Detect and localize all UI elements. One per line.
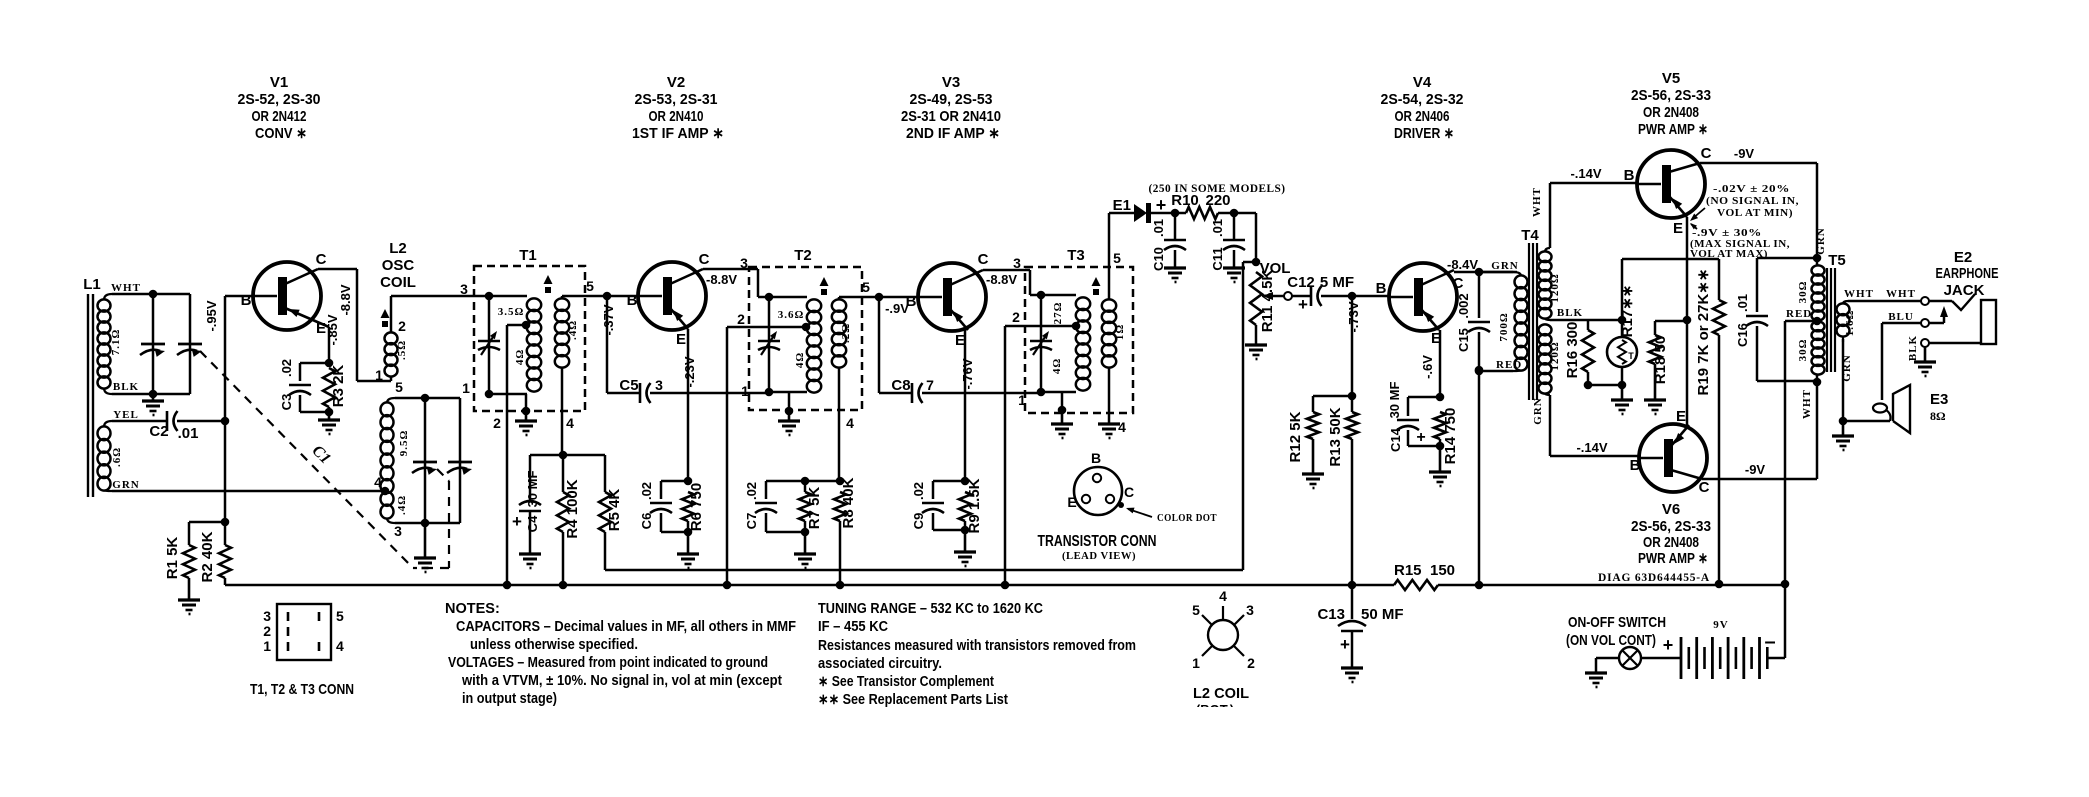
svg-text:8Ω: 8Ω [1930, 409, 1946, 423]
svg-text:C10: C10 [1151, 247, 1166, 271]
svg-text:4: 4 [846, 415, 854, 431]
ground R7 [804, 532, 807, 554]
svg-text:E: E [1067, 494, 1076, 510]
svg-text:PWR AMP ∗: PWR AMP ∗ [1638, 121, 1708, 138]
wire V1 base line [225, 295, 253, 298]
svg-text:1: 1 [375, 367, 383, 383]
node bus R4 [559, 581, 568, 590]
capacitor C14 30MF electrolytic [1408, 396, 1440, 399]
ground R11 [1245, 343, 1267, 346]
capacitor C13 50MF electrolytic [1351, 585, 1354, 619]
wire L2 pin2 to T1 [391, 295, 489, 298]
svg-text:120Ω: 120Ω [1549, 273, 1561, 302]
ground T1 pin1 stub [525, 394, 528, 411]
ground R3 [328, 412, 331, 420]
node T2 pin3 [765, 293, 774, 302]
svg-text:C7: C7 [744, 513, 759, 530]
svg-text:CAPACITORS – Decimal values in: CAPACITORS – Decimal values in MF, all o… [456, 619, 796, 635]
svg-text:associated circuitry.: associated circuitry. [818, 656, 942, 672]
svg-text:R11 4.5K: R11 4.5K [1259, 270, 1276, 333]
IF transformer T2 shield box [749, 267, 862, 410]
resistor R14 750 [1434, 412, 1446, 439]
svg-text:30Ω: 30Ω [1797, 281, 1809, 304]
svg-text:GRN: GRN [1532, 397, 1544, 424]
svg-text:3: 3 [1246, 602, 1254, 618]
svg-text:4: 4 [336, 638, 344, 654]
wire V2 collector [703, 268, 758, 271]
resistor R7 5K [804, 481, 807, 492]
svg-text:-.95V: -.95V [204, 300, 219, 331]
svg-text:5: 5 [336, 608, 344, 624]
wire V5 emitter [1686, 217, 1689, 425]
svg-text:3: 3 [263, 608, 271, 624]
svg-text:2: 2 [493, 415, 501, 431]
svg-text:-.73V: -.73V [1346, 301, 1361, 332]
wire to R12 [1313, 395, 1352, 398]
node T1 pin3 [485, 292, 494, 301]
svg-text:3: 3 [1013, 255, 1021, 271]
svg-text:C9: C9 [911, 513, 926, 530]
svg-text:unless otherwise specified.: unless otherwise specified. [470, 637, 638, 653]
ground C13 [1341, 666, 1363, 669]
speaker E3 cone [1893, 385, 1910, 433]
svg-text:RED: RED [1496, 359, 1522, 371]
svg-text:2: 2 [737, 311, 745, 327]
svg-text:.02: .02 [639, 482, 654, 500]
transistor V3 [918, 263, 986, 331]
slug arrow T1 [544, 275, 553, 284]
T3 secondary winding 1 ohm [1102, 299, 1116, 311]
svg-text:R6 750: R6 750 [688, 483, 705, 531]
svg-text:1: 1 [1192, 655, 1200, 671]
svg-text:R15: R15 [1394, 562, 1422, 579]
svg-text:L2 COIL: L2 COIL [1193, 685, 1249, 702]
svg-text:3: 3 [394, 523, 402, 539]
T4 secondary winding 120 ohm lower [1539, 324, 1552, 335]
T1 primary winding 3.5 ohm [489, 295, 527, 298]
T5 secondary winding 1.6 ohm [1837, 303, 1850, 315]
svg-text:TRANSISTOR CONN: TRANSISTOR CONN [1038, 533, 1157, 550]
svg-text:(ON VOL CONT): (ON VOL CONT) [1566, 632, 1656, 649]
trimmer capacitor T1 [488, 296, 491, 394]
svg-text:WHT: WHT [1886, 288, 1916, 300]
T4 primary winding 700 ohm [1515, 275, 1528, 288]
T4 secondary winding 120 ohm upper [1539, 251, 1552, 262]
thermistor R17 [1621, 320, 1624, 337]
svg-text:R14 750: R14 750 [1442, 408, 1459, 465]
svg-text:GRN: GRN [1491, 260, 1518, 272]
node C11 [1230, 209, 1239, 218]
resistor R8 40K [834, 492, 846, 521]
node bus R13 C13 [1348, 581, 1357, 590]
wire V3 collector [983, 269, 1030, 272]
svg-text:-.02V ± 20%: -.02V ± 20% [1713, 183, 1790, 195]
svg-text:GRN: GRN [1841, 354, 1853, 381]
node bus R19 [1715, 580, 1724, 589]
svg-text:C: C [1701, 145, 1712, 162]
svg-text:-.14V: -.14V [1570, 166, 1601, 181]
svg-text:4Ω: 4Ω [1051, 358, 1063, 374]
svg-text:150: 150 [1430, 562, 1455, 579]
trimmer capacitor T3 [1040, 295, 1043, 392]
T4 secondary tap BLK [1545, 318, 1550, 320]
capacitor C12 5MF [1291, 295, 1311, 298]
svg-text:TUNING RANGE – 532 KC to 1620: TUNING RANGE – 532 KC to 1620 KC [818, 601, 1043, 617]
oscillator coil L2 upper .5 ohm [385, 332, 398, 344]
svg-text:2: 2 [398, 318, 406, 334]
slug arrow L2 [381, 309, 390, 318]
svg-text:9V: 9V [1713, 619, 1728, 631]
svg-text:OR 2N410: OR 2N410 [649, 108, 704, 125]
svg-text:2S-56, 2S-33: 2S-56, 2S-33 [1631, 518, 1711, 535]
node bus T3 pin2 [1001, 581, 1010, 590]
svg-text:R7 5K: R7 5K [806, 487, 823, 530]
svg-text:NOTES:: NOTES: [445, 601, 500, 617]
svg-text:R10: R10 [1171, 192, 1199, 209]
svg-text:-.85V: -.85V [325, 314, 340, 345]
svg-text:V4: V4 [1413, 74, 1432, 91]
svg-text:BLU: BLU [1888, 311, 1914, 323]
oscillator coil L2 lower 9.5 ohm / .4 ohm [381, 402, 394, 416]
svg-text:2: 2 [263, 623, 271, 639]
wire T5 bottom to V6 collector [1816, 382, 1819, 479]
svg-text:-.76V: -.76V [960, 358, 975, 389]
svg-text:E: E [1676, 408, 1686, 425]
svg-text:50 MF: 50 MF [1361, 606, 1404, 623]
svg-text:C: C [1124, 484, 1134, 500]
svg-text:C: C [978, 251, 989, 268]
svg-text:.4Ω: .4Ω [567, 320, 579, 340]
node bus T2 pin2 [723, 581, 732, 590]
ground L1 [152, 394, 155, 401]
node L1 bottom [149, 390, 158, 399]
svg-text:BLK: BLK [1557, 307, 1583, 319]
wire T3 tap pin 2 [1005, 325, 1076, 328]
svg-text:DIAG 63D644455-A: DIAG 63D644455-A [1598, 572, 1710, 584]
node IF2 base bias junction [836, 477, 845, 486]
svg-text:OSC: OSC [382, 257, 415, 274]
svg-text:30Ω: 30Ω [1797, 339, 1809, 362]
resistor R5 4K [604, 455, 607, 492]
earphone jack WHT terminal [1921, 297, 1929, 305]
node T2 secondary to V3 base [875, 293, 884, 302]
wire R16 R17 bottoms [1588, 384, 1622, 387]
svg-text:C12: C12 [1287, 274, 1315, 291]
svg-text:V5: V5 [1662, 70, 1680, 87]
svg-text:L1: L1 [83, 276, 101, 293]
svg-text:5: 5 [1192, 602, 1200, 618]
capacitor C8 7 [879, 392, 912, 395]
svg-text:GRN: GRN [112, 479, 139, 491]
node V2 emitter junction [684, 477, 693, 486]
svg-text:R8 40K: R8 40K [840, 477, 857, 528]
ground L2 tank [424, 523, 427, 558]
ground R9 [964, 530, 967, 552]
wire to R1 [189, 521, 225, 524]
wire T1 pin4 to AVC [562, 454, 565, 457]
node T1 pin1 [485, 390, 494, 399]
emitter rail to R19 [1621, 259, 1624, 320]
resistor R9 1.5K [959, 492, 971, 521]
svg-text:5: 5 [862, 279, 870, 295]
svg-text:C5: C5 [619, 377, 638, 394]
svg-text:C15: C15 [1456, 328, 1471, 352]
svg-text:C2: C2 [149, 423, 168, 440]
svg-text:2: 2 [1247, 655, 1255, 671]
jack spring contact [1929, 300, 1952, 303]
node R9 bottom [961, 526, 970, 535]
svg-text:BLK: BLK [113, 381, 139, 393]
volume control R11 4.5K [1250, 272, 1262, 325]
node bus T1 pin2 [503, 581, 512, 590]
ground T2 stub [788, 392, 791, 411]
svg-text:5: 5 [395, 379, 403, 395]
svg-text:1: 1 [263, 638, 271, 654]
svg-text:T1, T2 & T3 CONN: T1, T2 & T3 CONN [250, 681, 354, 698]
resistor R10 220 [1186, 207, 1218, 219]
svg-text:in output stage): in output stage) [462, 691, 557, 707]
wire BLU to speaker [1882, 322, 1921, 325]
svg-text:5 MF: 5 MF [1320, 274, 1354, 291]
svg-text:E: E [955, 332, 965, 349]
svg-text:2S-49, 2S-53: 2S-49, 2S-53 [910, 91, 993, 108]
capacitor C7 .02 [765, 481, 768, 499]
svg-text:T2: T2 [794, 247, 812, 264]
svg-text:4Ω: 4Ω [514, 349, 526, 365]
node R3 bottom [325, 408, 334, 417]
resistor R12 5K [1312, 396, 1315, 412]
dashed gang outline C1 [200, 351, 413, 568]
node T4 primary bottom [1475, 367, 1484, 376]
svg-text:C11: C11 [1210, 247, 1225, 270]
IF transformer T1 shield box [474, 266, 585, 411]
svg-text:+: + [1156, 195, 1167, 215]
svg-text:∗ See Transistor Complement: ∗ See Transistor Complement [818, 674, 994, 690]
resistor R18 50 [1655, 320, 1687, 323]
svg-text:.01: .01 [1210, 219, 1225, 237]
variable capacitor C1d osc trimmer [459, 398, 462, 523]
capacitor C10 .01 [1174, 213, 1177, 240]
node L2 tap pin 4 [381, 487, 390, 496]
wiper arrow R11 [1270, 295, 1285, 298]
wire V4 collector [1454, 271, 1517, 274]
svg-text:4: 4 [1219, 588, 1227, 604]
svg-text:B: B [627, 292, 638, 309]
svg-text:COLOR DOT: COLOR DOT [1157, 512, 1217, 524]
svg-text:V2: V2 [667, 74, 685, 91]
wire V6 collector [1702, 478, 1817, 481]
svg-text:C: C [316, 251, 327, 268]
node speaker ground junction [1839, 417, 1848, 426]
svg-text:-.14V: -.14V [1576, 440, 1607, 455]
node T1 secondary to V2 base [603, 292, 612, 301]
node emitter R14 [1436, 393, 1445, 402]
node T5 primary bottom [1816, 374, 1819, 382]
ground C11 [1223, 266, 1245, 269]
wire C7 R7 R8 tops [766, 480, 840, 483]
node C10 [1171, 209, 1180, 218]
wire L1 tank bottom rail [112, 393, 190, 396]
transistor V6 [1639, 424, 1707, 492]
svg-text:R13 50K: R13 50K [1327, 407, 1344, 466]
svg-text:3: 3 [655, 377, 663, 393]
T1 secondary winding .4 ohm [555, 298, 569, 311]
svg-text:T5: T5 [1828, 252, 1846, 269]
svg-text:+: + [1298, 295, 1308, 314]
svg-text:30 MF: 30 MF [1387, 382, 1402, 419]
node V3 emitter junction [961, 477, 970, 486]
svg-text:.2Ω: .2Ω [840, 323, 852, 343]
node -9V T5 top [1813, 254, 1822, 263]
node bus battery [1781, 580, 1790, 589]
svg-text:WHT: WHT [111, 282, 141, 294]
svg-text:-.23V: -.23V [682, 356, 697, 387]
node R6 bottom [684, 528, 693, 537]
svg-text:ON-OFF SWITCH: ON-OFF SWITCH [1568, 614, 1666, 631]
svg-text:1: 1 [1018, 392, 1026, 408]
svg-text:.002: .002 [1456, 293, 1471, 318]
wire V4 emitter [1439, 330, 1442, 397]
ground R17 [1621, 385, 1624, 400]
node R7 bottom [801, 528, 810, 537]
svg-text:(LEAD VIEW): (LEAD VIEW) [1062, 550, 1136, 562]
svg-text:-8.4V: -8.4V [1447, 257, 1478, 272]
svg-text:OR 2N406: OR 2N406 [1395, 108, 1450, 125]
svg-text:1: 1 [741, 383, 749, 399]
svg-text:JACK: JACK [1944, 282, 1985, 299]
svg-text:C16: C16 [1735, 323, 1750, 347]
svg-text:2S-53, 2S-31: 2S-53, 2S-31 [635, 91, 718, 108]
slug arrow T2 [820, 277, 829, 286]
transistor V5 [1637, 150, 1705, 218]
wire V5 collector [1700, 162, 1817, 165]
svg-text:C: C [1453, 275, 1464, 292]
svg-text:OR 2N408: OR 2N408 [1643, 534, 1699, 551]
svg-text:Resistances measured with tran: Resistances measured with transistors re… [818, 638, 1136, 654]
svg-text:2ND IF AMP ∗: 2ND IF AMP ∗ [906, 125, 1000, 142]
node T2 tap [802, 323, 811, 332]
wire switch to ground [1596, 657, 1619, 660]
svg-text:-8.8V: -8.8V [706, 272, 737, 287]
ground C4 [519, 552, 541, 555]
wire T5 tap to bus riser [1785, 320, 1817, 323]
wire V2 base to C5 [606, 296, 609, 393]
node R14 bottom [1436, 442, 1445, 451]
wire L1 tank top rail [112, 293, 190, 296]
wire V2 base [607, 295, 638, 298]
svg-text:VOLTAGES – Measured from point: VOLTAGES – Measured from point indicated… [448, 655, 768, 671]
svg-text:.4Ω: .4Ω [396, 495, 408, 515]
transistor V4 [1389, 263, 1457, 331]
svg-text:∗∗ See Replacement Parts List: ∗∗ See Replacement Parts List [818, 692, 1008, 708]
resistor R16 300 [1582, 330, 1594, 372]
capacitor C6 .02 [661, 480, 688, 483]
antenna coil L1 core [87, 294, 89, 497]
svg-text:E: E [676, 331, 686, 348]
svg-text:1Ω: 1Ω [1114, 324, 1126, 340]
ground C10 [1164, 266, 1186, 269]
ground R1 [188, 578, 191, 600]
svg-text:4Ω: 4Ω [794, 352, 806, 368]
svg-text:T4: T4 [1521, 227, 1539, 244]
svg-text:IF – 455 KC: IF – 455 KC [818, 619, 888, 635]
svg-text:WHT: WHT [1531, 187, 1543, 217]
capacitor C9 .02 [933, 480, 965, 483]
T2 primary winding 3.6 ohm [769, 296, 807, 299]
svg-text:E: E [1673, 220, 1683, 237]
IF transformer T3 shield box [1025, 267, 1133, 413]
capacitor C15 .002 [1478, 272, 1481, 318]
svg-text:L2: L2 [389, 240, 407, 257]
T3 primary winding 27 ohm [1041, 294, 1076, 297]
node V5 emitter R18 [1683, 316, 1692, 325]
resistor R3 2K [323, 368, 335, 407]
svg-text:(NO SIGNAL IN,: (NO SIGNAL IN, [1706, 195, 1799, 207]
T5 primary winding 30 ohm upper [1812, 265, 1825, 275]
diode E1 [1109, 212, 1134, 215]
svg-text:C3: C3 [279, 394, 294, 411]
svg-text:R5 4K: R5 4K [606, 489, 623, 532]
ground R14 [1439, 446, 1442, 472]
svg-text:OR 2N412: OR 2N412 [252, 108, 307, 125]
svg-text:+: + [1416, 429, 1425, 446]
wire R5 to AVC return line [604, 532, 607, 570]
wire V2 emitter [687, 329, 690, 481]
capacitor C2 .01 [112, 420, 167, 423]
svg-text:COIL: COIL [380, 274, 416, 291]
svg-text:27Ω: 27Ω [1052, 302, 1064, 325]
svg-text:BLK: BLK [1907, 335, 1919, 361]
svg-text:C4: C4 [525, 515, 540, 532]
wire to volume control [1255, 213, 1258, 262]
jack switch arrow [1943, 312, 1946, 323]
svg-text:V3: V3 [942, 74, 960, 91]
svg-text:EARPHONE: EARPHONE [1936, 265, 1999, 282]
svg-text:R16 300: R16 300 [1564, 322, 1581, 379]
svg-text:C: C [1699, 479, 1710, 496]
variable capacitor C1c oscillator [424, 398, 427, 523]
svg-text:R2 40K: R2 40K [199, 531, 216, 582]
capacitor C3 .02 [300, 362, 329, 365]
svg-text:PWR AMP ∗: PWR AMP ∗ [1638, 550, 1708, 567]
svg-text:.02: .02 [911, 482, 926, 500]
capacitor C5 3 [607, 392, 640, 395]
connector diagram T1 T2 T3 [277, 604, 331, 660]
svg-text:R3 2K: R3 2K [330, 365, 347, 408]
wire base divider [1351, 296, 1354, 396]
svg-text:4: 4 [1118, 419, 1126, 435]
ground T3 pin4 [1098, 422, 1120, 425]
svg-text:.5Ω: .5Ω [396, 340, 408, 360]
svg-text:.02: .02 [279, 359, 294, 377]
svg-text:B: B [1091, 450, 1101, 466]
svg-text:2S-56, 2S-33: 2S-56, 2S-33 [1631, 87, 1711, 104]
svg-text:-.6V: -.6V [1420, 355, 1435, 379]
node L1 top [149, 290, 158, 299]
resistor R13 50K [1351, 396, 1354, 412]
svg-text:2S-52, 2S-30: 2S-52, 2S-30 [238, 91, 321, 108]
wire V3 base [879, 296, 918, 299]
svg-text:+: + [1663, 635, 1674, 655]
node T2 pin1 [765, 388, 774, 397]
svg-text:R12 5K: R12 5K [1287, 411, 1304, 462]
svg-text:2S-54, 2S-32: 2S-54, 2S-32 [1381, 91, 1464, 108]
ground R6 [687, 532, 690, 554]
wire battery to bus [1767, 657, 1785, 660]
svg-text:.02: .02 [744, 482, 759, 500]
svg-text:30 MF: 30 MF [525, 471, 540, 508]
svg-text:7: 7 [926, 377, 934, 393]
